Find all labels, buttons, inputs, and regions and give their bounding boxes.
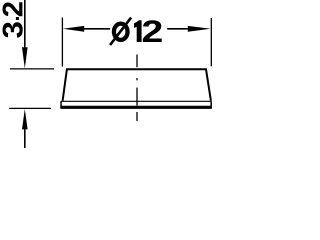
base flange right edge: [210, 101, 212, 108]
diameter dimension line right segment: [167, 28, 188, 30]
height dimension line upper shaft: [24, 0, 26, 47]
diameter dimension line left segment: [84, 28, 110, 30]
dimension text: diameter symbol: [110, 18, 131, 45]
dimension text: digit 2: [143, 20, 162, 42]
extension line right (diameter): [210, 18, 212, 66]
height extension line top: [10, 68, 54, 70]
height text: decimal point (rotated): [16, 17, 19, 20]
diameter dimension arrow right: [188, 26, 211, 32]
height dimension arrow down: [22, 47, 28, 68]
height dimension lower shaft: [24, 129, 26, 148]
height dimension arrow up: [22, 109, 28, 129]
height text: digit 3 (rotated): [3, 22, 23, 38]
dimension text: digit 1: [134, 20, 142, 42]
base flange left edge: [60, 101, 62, 108]
extension line left (diameter): [61, 18, 63, 67]
base flange top line: [61, 100, 212, 102]
height extension line bottom: [9, 107, 51, 109]
foot body outline (trapezoid side view): [63, 69, 211, 101]
base flange bottom thick line: [61, 106, 212, 109]
diameter dimension arrow left: [63, 26, 84, 32]
height text: digit 2 (rotated): [3, 2, 23, 16]
centerline of part: [136, 55, 138, 122]
